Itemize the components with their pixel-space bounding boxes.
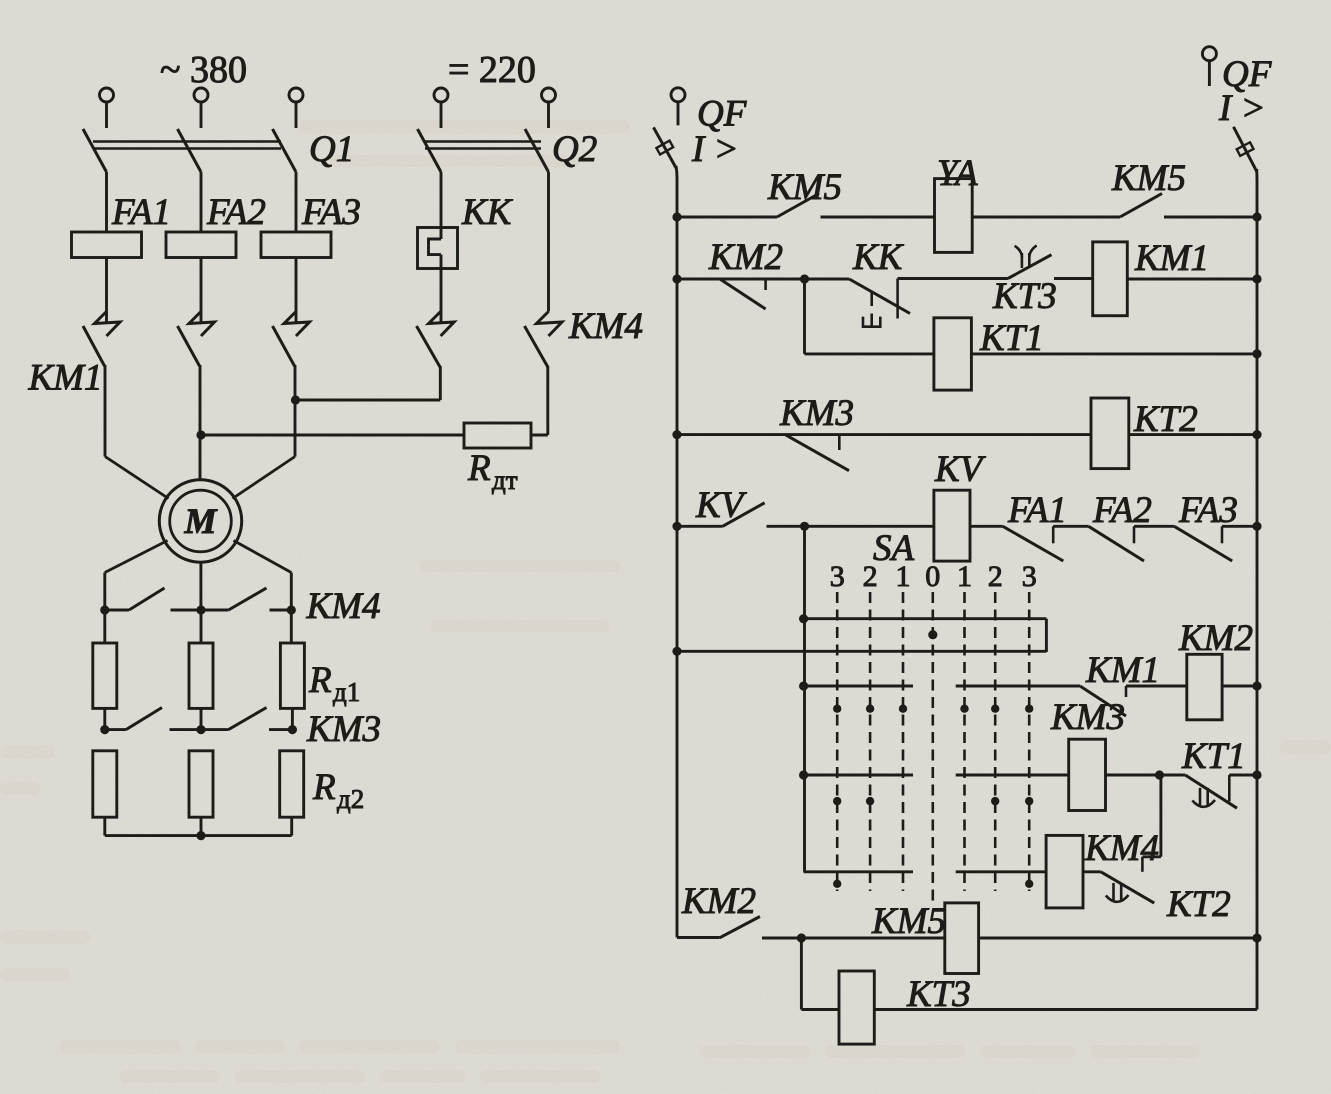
wire Rd2 to common (103, 817, 106, 835)
coil KT1 (934, 318, 972, 390)
node SA common branch (799, 614, 808, 623)
contactor KM1 pole 2 blade (178, 326, 200, 366)
coil KT3 (839, 971, 874, 1044)
node row1 left (672, 212, 681, 221)
contact KT1 NC delayed (1185, 775, 1237, 808)
node L2 terminal (194, 88, 208, 102)
wire motor bottom-left (105, 541, 168, 573)
contactor KM1 pole 3 arrow (284, 312, 310, 337)
contactor KM4 pole KK-side blade (417, 326, 441, 367)
contactor KM3 blade a (126, 708, 162, 730)
wire row10 b (979, 937, 1257, 940)
coil YA (935, 179, 973, 253)
coil KM1 (1093, 242, 1128, 316)
wire row5 a (677, 525, 723, 528)
wire KK pole down (439, 366, 442, 400)
node L1 terminal (100, 88, 114, 102)
contact FA1 NC (1003, 526, 1064, 561)
contact KM1 NC (1080, 686, 1126, 716)
contact KM2 bottom NO (677, 936, 720, 939)
wire row4 b (839, 433, 1091, 436)
svg-text:FA3: FA3 (301, 192, 361, 233)
wire row7 b (956, 685, 1080, 688)
contactor KM1 pole 2 arrow (189, 312, 215, 337)
svg-text:KV: KV (695, 485, 748, 526)
contact FA3 NC (1174, 526, 1232, 561)
node row2 right (1252, 274, 1261, 283)
svg-text:1: 1 (896, 560, 911, 593)
nodes SA row8 closed positions (833, 797, 841, 805)
svg-text:= 220: = 220 (448, 49, 536, 91)
contact KM3 NC (785, 435, 849, 471)
coil KV (934, 490, 970, 561)
wire row3 a (805, 352, 934, 355)
wire row11 b (874, 1008, 1257, 1011)
node row5 branch (800, 522, 809, 531)
wire row9 a (804, 870, 913, 873)
node row8 branch (799, 770, 808, 779)
resistor Rd1 b (189, 643, 213, 708)
wire row8 a (804, 774, 913, 777)
resistor Rd2 c (280, 751, 304, 817)
wire row2 a (677, 278, 849, 281)
svg-text:KM1: KM1 (28, 358, 103, 399)
wire row5 f (1222, 525, 1257, 528)
svg-text:KM5: KM5 (871, 901, 946, 942)
node row6 left (672, 647, 681, 656)
svg-text:KT2: KT2 (1166, 884, 1231, 925)
wire row1 d (1164, 216, 1257, 219)
wire motor bottom-right (234, 541, 292, 573)
contactor KM3 blade b (229, 708, 267, 730)
svg-text:R: R (312, 767, 336, 808)
node row7 branch (799, 681, 808, 690)
svg-text:R: R (467, 448, 491, 489)
node row3 right (1252, 349, 1261, 358)
contact KT3 delayed (1008, 255, 1052, 279)
wire Q1.1 to FA1 (105, 172, 108, 232)
coil KT2 (1091, 398, 1129, 469)
contact KT2 NC delayed (1101, 872, 1154, 903)
node row10 branch (797, 933, 806, 942)
wire row7 c (1126, 685, 1187, 688)
svg-text:KK: KK (852, 237, 905, 278)
wire common bottom (105, 834, 292, 837)
wire row1 c (972, 216, 1120, 219)
svg-text:KM4: KM4 (1084, 828, 1159, 869)
wire row2 d (1127, 278, 1257, 281)
wire branch row2-row3 (803, 279, 806, 354)
contact KM5 left (777, 194, 819, 218)
svg-text:KM5: KM5 (1111, 158, 1186, 199)
wire row5 b (767, 525, 934, 528)
wire right bus (1255, 169, 1258, 1010)
coil KM4 (1046, 835, 1083, 908)
wire row4 c (1129, 433, 1257, 436)
resistor Rd2 b (189, 751, 213, 817)
svg-text:KM4: KM4 (568, 306, 643, 347)
wire FA2 to KM1.2 (200, 258, 203, 324)
wire branch row10-row11 (800, 938, 803, 1010)
contactor KM4 shorting row (100, 605, 109, 614)
wire row8 b (956, 774, 1069, 777)
svg-text:I >: I > (691, 129, 739, 170)
svg-text:KT3: KT3 (992, 276, 1057, 317)
switch Q1 pole 3 blade (273, 129, 297, 172)
motor M (159, 480, 241, 562)
contact KM5 right (1120, 194, 1162, 218)
wire SA common right (1045, 619, 1048, 652)
wire riser KT2 to row8 (1142, 855, 1161, 858)
nodes SA row7 closed positions (833, 705, 841, 713)
wire Rd1 to KM3 row (103, 708, 106, 729)
wire row7 d (1222, 685, 1257, 688)
wire row9 c (1083, 870, 1101, 873)
wire row2 c (1054, 277, 1093, 280)
node row5 left (672, 522, 681, 531)
svg-text:KM5: KM5 (767, 167, 842, 208)
wire KM4 pole down to Rdt (546, 366, 549, 435)
node row2 branch (800, 274, 809, 283)
nodes SA row9 closed positions (833, 880, 841, 888)
svg-text:KM2: KM2 (681, 881, 756, 922)
wire row8 c (1106, 774, 1186, 777)
contactor KM4 pole right blade (525, 326, 548, 367)
wire row1 b (821, 216, 935, 219)
node L3 terminal (289, 88, 303, 102)
node row4 left (672, 430, 681, 439)
wire node2 to Rdt (201, 434, 464, 437)
svg-text:д2: д2 (337, 784, 364, 814)
switch SA position columns (836, 592, 839, 891)
node row4 right (1252, 430, 1261, 439)
wire row9 b (956, 870, 1046, 873)
resistor Rd1 c (280, 643, 304, 708)
wire KM1.3 to motor (294, 365, 297, 457)
svg-text:I >: I > (1218, 88, 1266, 129)
svg-text:M: M (183, 501, 218, 541)
wire KM1.2 to motor (199, 365, 202, 481)
wire row11 a (801, 1008, 839, 1011)
svg-text:~ 380: ~ 380 (160, 49, 247, 91)
wire SA common top (804, 617, 1047, 620)
svg-text:R: R (308, 660, 332, 701)
fuse FA1 (72, 232, 142, 258)
wire SA common bottom (677, 650, 1046, 653)
wire Q1.3 to FA3 (295, 172, 298, 232)
contactor KM1 pole 1 arrow (95, 312, 121, 337)
wire row2 b (898, 277, 1008, 280)
svg-text:KM3: KM3 (779, 393, 854, 434)
contact KM2 NC (720, 279, 766, 309)
resistor Rdt (464, 423, 531, 448)
contact KV NO (723, 503, 765, 527)
svg-text:Q2: Q2 (552, 129, 597, 170)
breaker QF right (1202, 47, 1216, 61)
breaker QF left (671, 88, 685, 102)
contactor KM1 pole 1 blade (83, 326, 105, 366)
svg-text:KM2: KM2 (1178, 618, 1253, 659)
wire Q1.2 to FA2 (200, 172, 203, 232)
wire KM1.1 to motor (104, 365, 107, 457)
svg-text:FA2: FA2 (206, 192, 266, 233)
svg-text:KM4: KM4 (306, 586, 381, 627)
wire FA3 to KM1.3 (295, 258, 298, 324)
wire node3 to KK pole (296, 399, 441, 402)
thermal relay KK heater (440, 172, 443, 239)
svg-text:FA1: FA1 (111, 192, 171, 233)
node row1 right (1252, 212, 1261, 221)
svg-text:2: 2 (863, 560, 878, 593)
wire to Rd1 resistors (103, 610, 106, 643)
svg-text:д1: д1 (333, 677, 360, 707)
wire row7 a (804, 685, 913, 688)
node row5 right (1252, 522, 1261, 531)
node row7 right (1252, 681, 1261, 690)
svg-text:Q1: Q1 (309, 129, 354, 170)
node row2 left (672, 274, 681, 283)
resistor Rd1 a (93, 643, 117, 708)
wire Q2.2 down (547, 172, 550, 312)
contactor KM3 shorting row (100, 725, 109, 734)
svg-text:KM3: KM3 (306, 709, 381, 750)
svg-text:KM3: KM3 (1050, 697, 1125, 738)
svg-text:0: 0 (925, 560, 940, 593)
node row10 right (1252, 933, 1261, 942)
wire row4 a (677, 433, 839, 436)
wire row1 a (677, 216, 777, 219)
svg-text:KM2: KM2 (708, 237, 783, 278)
node +220 terminal (434, 88, 448, 102)
wire left bus (675, 166, 679, 938)
wire row3 b (971, 352, 1257, 355)
switch Q2 linkage bar (425, 140, 541, 143)
resistor Rd2 a (93, 751, 117, 817)
contactor KM4 blade a (129, 588, 165, 610)
wire row10 a (762, 937, 945, 940)
coil KM2 (1187, 654, 1222, 720)
svg-text:YA: YA (937, 153, 978, 194)
coil KM3 (1069, 739, 1106, 810)
svg-text:1: 1 (957, 560, 972, 593)
wire row5 e (1134, 525, 1174, 528)
switch Q1 linkage bar (93, 140, 281, 143)
contact FA2 NC (1089, 526, 1145, 561)
switch Q2 pole 1 blade (418, 129, 442, 172)
fuse FA3 (261, 232, 331, 258)
switch Q1 pole 1 blade (83, 129, 107, 172)
contactor KM4 pole KK-side arrow (429, 312, 455, 337)
svg-text:KM1: KM1 (1134, 238, 1209, 279)
contactor KM1 pole 3 blade (273, 326, 295, 366)
wire row5 c (970, 525, 1003, 528)
svg-text:2: 2 (988, 560, 1003, 593)
coil KM5 (945, 903, 979, 974)
contact KK thermal NC (849, 279, 910, 314)
svg-text:KV: KV (934, 449, 987, 490)
svg-text:3: 3 (1022, 560, 1037, 593)
switch Q1 pole 2 blade (178, 129, 202, 172)
fuse FA2 (166, 232, 236, 258)
switch Q2 pole 2 blade (525, 129, 549, 172)
contactor KM4 pole right arrow (537, 312, 563, 337)
wire FA1 to KM1.1 (105, 258, 108, 324)
wire row5 d (1053, 525, 1088, 528)
node row8 riser (1155, 770, 1164, 779)
svg-text:дт: дт (492, 465, 518, 495)
wire motor bottom-center (199, 562, 202, 610)
svg-text:KT1: KT1 (1181, 736, 1246, 777)
node SA position 0 closed (928, 630, 937, 639)
wire row8 d (1229, 774, 1257, 777)
wire branch row5-row9 (803, 526, 806, 872)
svg-text:3: 3 (830, 560, 845, 593)
node -220 terminal (542, 88, 556, 102)
contactor KM4 blade b (229, 588, 267, 610)
node row8 right (1252, 770, 1261, 779)
svg-text:KK: KK (461, 192, 514, 233)
